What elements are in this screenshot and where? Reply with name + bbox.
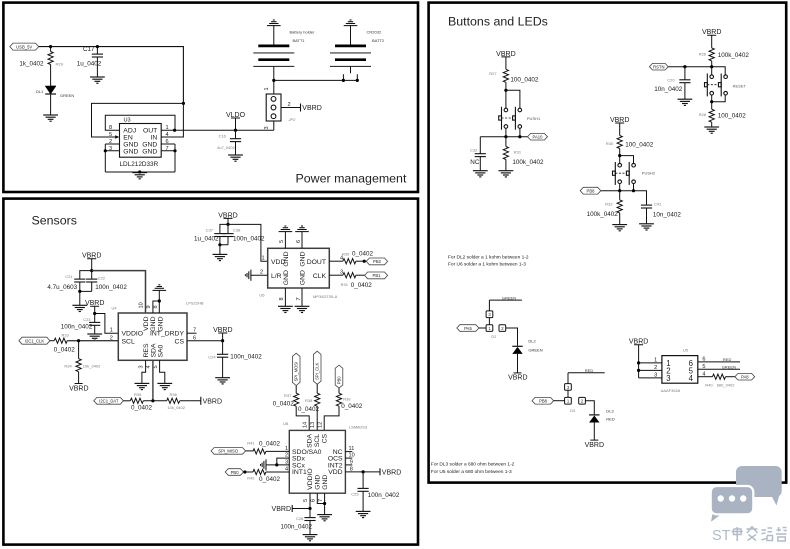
net flag I2C1_DAT	[94, 397, 124, 404]
svg-text:9: 9	[146, 305, 152, 308]
net VBRD below R34	[69, 384, 88, 393]
wire mic top gnd stubs	[285, 232, 302, 249]
ground above mic pin6	[295, 226, 309, 232]
wire IN pin from rail	[161, 103, 183, 137]
svg-text:SCL: SCL	[122, 338, 135, 345]
resistor R31 pulldown	[503, 137, 544, 171]
wire U3 GND pins left	[105, 144, 119, 172]
net VBRD at JP2	[301, 104, 322, 113]
wire U4 INT_DRDY pin7 stub	[187, 332, 197, 334]
arrowhead EN pin	[115, 135, 119, 139]
wire JP2 pin2 to VBRD	[281, 107, 301, 109]
ground below R31	[499, 171, 514, 177]
svg-text:5: 5	[109, 132, 112, 138]
watermark back chat bubble	[736, 466, 782, 506]
wire VBRD rail to U4 VDD	[92, 271, 146, 313]
svg-text:100n_0402: 100n_0402	[368, 492, 400, 499]
ground below U3	[132, 173, 147, 179]
net label RED at DL3	[568, 368, 605, 384]
wire U4 top GND pins	[153, 290, 159, 313]
svg-text:RED: RED	[606, 416, 615, 421]
svg-text:100k_0402: 100k_0402	[587, 211, 619, 218]
regulator U3 body	[120, 124, 162, 158]
wire U8 GND pins to ground	[317, 493, 324, 514]
svg-text:5: 5	[279, 240, 285, 243]
capacitor C22	[80, 271, 128, 292]
junction VBRD C23	[93, 312, 96, 315]
pushbutton RESET	[705, 74, 728, 97]
pressure sensor U4 body	[118, 313, 187, 360]
svg-text:PB8: PB8	[539, 399, 548, 404]
svg-text:DL2: DL2	[528, 339, 536, 344]
pin numbers U4	[110, 302, 196, 368]
svg-text:100k_0402: 100k_0402	[718, 52, 750, 59]
svg-text:BATT1: BATT1	[293, 38, 306, 43]
svg-text:PA10: PA10	[533, 135, 544, 140]
resistor R32 pulldown	[587, 191, 623, 225]
svg-text:10k_0402: 10k_0402	[167, 405, 185, 410]
svg-text:For DL2 solder a 1 kohm betwee: For DL2 solder a 1 kohm between 1-2	[448, 254, 529, 260]
junction below RESET	[710, 100, 713, 103]
net VBRD above U5	[629, 339, 662, 378]
junction VDD C25	[362, 470, 365, 473]
svg-text:PA8: PA8	[741, 375, 749, 380]
svg-text:C17: C17	[83, 46, 95, 53]
svg-text:Sensors: Sensors	[32, 214, 77, 228]
resistor R29	[19, 47, 63, 70]
pad 1 of DL2	[486, 325, 493, 332]
resistor R35	[130, 392, 152, 412]
junction C37 C38	[218, 243, 221, 246]
resistor R37	[273, 393, 299, 408]
wire U4 RES pin to ground	[142, 360, 146, 383]
svg-text:GREEN: GREEN	[60, 93, 74, 98]
svg-text:VDDIO: VDDIO	[307, 468, 314, 490]
resistor R30 push2	[606, 136, 654, 149]
svg-text:0_0402: 0_0402	[298, 406, 320, 413]
svg-text:R36: R36	[170, 392, 178, 397]
svg-text:5: 5	[303, 499, 309, 502]
battery BATT1	[253, 26, 315, 81]
LED DL1 GREEN	[36, 86, 74, 115]
svg-text:680_0402: 680_0402	[717, 383, 736, 388]
wire R37 to SDA pin	[296, 406, 309, 430]
svg-text:ST: ST	[712, 528, 731, 544]
svg-text:1: 1	[261, 256, 264, 262]
net VBRD above C23	[85, 300, 104, 313]
wire I2C1_CLK to R33	[50, 340, 54, 342]
pad 3 of DL3	[565, 384, 572, 398]
net VBRD below DL3	[585, 440, 604, 449]
svg-text:7: 7	[318, 499, 324, 502]
net flag I2C1_CLK	[19, 337, 50, 344]
wire PUSH1 to PA10 row	[480, 128, 527, 136]
wire U3 GND pins right	[161, 144, 175, 172]
ground below C25	[356, 511, 371, 517]
svg-text:C22: C22	[98, 275, 106, 280]
svg-text:10: 10	[138, 302, 144, 308]
net flag PA5	[457, 325, 479, 332]
net VBRD above R26	[702, 29, 721, 48]
svg-text:C25: C25	[351, 491, 359, 496]
wire R27 to PUSH1	[506, 82, 520, 108]
svg-text:4: 4	[340, 256, 343, 262]
svg-text:CR2032: CR2032	[367, 30, 382, 35]
svg-text:10k_0402: 10k_0402	[83, 364, 101, 369]
ground below C20	[678, 99, 693, 105]
svg-text:D3: D3	[570, 408, 576, 413]
resistor R42	[247, 469, 280, 482]
junction R26 RESET	[710, 65, 713, 68]
svg-text:1: 1	[264, 87, 270, 90]
svg-text:R33: R33	[62, 332, 70, 337]
svg-text:100_0402: 100_0402	[510, 77, 539, 84]
junction PUSH1 left	[504, 135, 507, 138]
net flag PB8 at DL3	[532, 397, 554, 404]
svg-text:GND: GND	[300, 270, 307, 285]
svg-text:R30: R30	[606, 141, 614, 146]
svg-text:CS: CS	[322, 433, 329, 443]
wire INT2 stub	[345, 464, 352, 466]
ground below C41	[639, 224, 654, 230]
svg-text:R29: R29	[56, 61, 64, 66]
junction SDA I2C1_DAT	[151, 399, 154, 402]
svg-text:U8: U8	[283, 421, 289, 426]
svg-text:RES: RES	[143, 343, 150, 357]
svg-text:5: 5	[153, 365, 159, 368]
wire R26 to RESET row	[668, 61, 725, 75]
net VBRD above R27	[496, 51, 515, 70]
capacitor C41	[641, 202, 682, 224]
resistor R38	[298, 393, 320, 413]
wire SPI_CLK to R38	[316, 384, 318, 393]
svg-text:U3: U3	[124, 118, 131, 124]
wire NC stub	[345, 451, 352, 453]
junction VLDO	[234, 129, 237, 132]
pad 2 of DL2	[499, 325, 506, 332]
svg-text:10n_0402: 10n_0402	[653, 212, 682, 219]
Buttons and LEDs section frame	[429, 3, 787, 483]
svg-text:0_0402: 0_0402	[259, 476, 281, 483]
svg-text:R37: R37	[284, 393, 292, 398]
junction OUT pin	[173, 129, 176, 132]
net VBRD at I2C1_DAT	[201, 397, 222, 406]
capacitor C37	[194, 224, 228, 244]
wire OUT to VLDO and JP2 pin3	[161, 121, 274, 130]
svg-text:3: 3	[264, 126, 270, 129]
svg-text:8: 8	[279, 297, 285, 300]
pad 1 of DL3	[565, 397, 572, 404]
wire RESET to R28	[712, 95, 726, 109]
svg-text:D2: D2	[491, 334, 497, 339]
svg-text:SPI_MISO: SPI_MISO	[218, 449, 239, 454]
resistor R40	[705, 374, 735, 387]
net flag SPI_MOSI vertical	[292, 353, 300, 385]
svg-text:0_0402: 0_0402	[131, 405, 153, 412]
svg-text:PB1: PB1	[373, 273, 382, 278]
pushbutton PUSH2	[613, 162, 636, 185]
svg-text:JP2: JP2	[288, 117, 297, 122]
svg-text:VBRD: VBRD	[382, 470, 401, 477]
junction SCL R34	[77, 339, 80, 342]
svg-text:RED: RED	[723, 357, 732, 362]
ground below C26	[303, 535, 318, 541]
wire R30 to PB2	[356, 260, 366, 262]
wire U4 CS pin6 to VBRD	[187, 340, 223, 342]
svg-text:3: 3	[654, 373, 657, 379]
net VBRD at VDDIO	[272, 505, 293, 513]
ground below R32	[612, 225, 627, 231]
net VBRD at CS	[213, 327, 232, 341]
wire C21 to ground	[79, 291, 81, 305]
svg-text:6: 6	[311, 499, 317, 502]
ground below mic pin8	[278, 306, 293, 312]
net flag SPI_MISO	[211, 448, 246, 455]
junction SDx SCx	[275, 463, 278, 466]
wire USB_5V rail	[39, 47, 184, 104]
svg-text:GND: GND	[315, 475, 322, 490]
pushbutton PUSH1	[499, 107, 522, 130]
svg-text:INT1: INT1	[292, 469, 307, 476]
junction U3 ground	[138, 170, 141, 173]
wire R39 to CS pin	[324, 406, 339, 430]
svg-text:3: 3	[139, 365, 145, 368]
svg-text:LDL212D33R: LDL212D33R	[120, 161, 159, 168]
ground below C23	[87, 334, 102, 340]
net VLDO	[226, 112, 246, 130]
svg-text:4: 4	[285, 466, 288, 472]
svg-text:R39: R39	[343, 396, 351, 401]
junction USB rail corner	[182, 102, 185, 105]
svg-text:GND: GND	[299, 251, 306, 266]
pin names U8	[292, 433, 343, 489]
svg-text:VDDIO: VDDIO	[122, 331, 144, 338]
wire battery rail to JP2	[274, 80, 358, 94]
capacitor C26	[281, 509, 316, 535]
capacitor C25	[351, 472, 400, 512]
svg-text:AAAF3528: AAAF3528	[661, 388, 681, 393]
svg-text:BATT2: BATT2	[372, 38, 385, 43]
pad 2 of DL3	[579, 397, 586, 404]
svg-text:1u_0402: 1u_0402	[194, 236, 219, 243]
svg-text:VBRD: VBRD	[508, 375, 527, 382]
svg-text:U5: U5	[683, 348, 689, 353]
Power management section frame	[3, 3, 418, 192]
capacitor C16	[217, 130, 241, 155]
net VBRD above R30	[610, 117, 629, 136]
wire U4 SA0 pin to ground	[160, 360, 165, 383]
junction BATT2 left	[342, 79, 345, 82]
svg-text:C23: C23	[83, 317, 91, 322]
svg-text:SA0: SA0	[158, 344, 165, 357]
svg-text:I2C1_DAT: I2C1_DAT	[99, 399, 119, 404]
wire U5 pin5 GREEN	[698, 365, 740, 370]
wire mic DOUT to R30	[329, 260, 343, 262]
wire R30 to PUSH2	[620, 149, 634, 164]
svg-text:C32: C32	[470, 148, 478, 153]
svg-text:R32: R32	[605, 202, 613, 207]
battery BATT2	[330, 26, 385, 81]
connector JP2	[266, 94, 296, 122]
resistor R33	[54, 332, 76, 353]
svg-text:I2C1_CLK: I2C1_CLK	[25, 339, 45, 344]
wire pin3 SCx to ground	[266, 464, 289, 466]
junction U3 pin7	[173, 149, 176, 152]
svg-text:0_0402: 0_0402	[341, 403, 363, 410]
wire R29 to DL1	[50, 70, 52, 86]
svg-text:PUSH1: PUSH1	[527, 116, 541, 121]
svg-text:C24: C24	[208, 354, 216, 359]
wire U5 pin1	[639, 362, 662, 364]
svg-text:GND: GND	[322, 475, 329, 490]
junction VBRD C22	[90, 269, 93, 272]
svg-text:12: 12	[318, 422, 324, 428]
svg-text:100n_0402: 100n_0402	[233, 236, 265, 243]
note DL3 U5 solder	[431, 462, 515, 475]
net flag PB8 push2	[580, 187, 601, 194]
svg-text:SDA: SDA	[307, 433, 314, 447]
svg-text:CS: CS	[175, 338, 185, 345]
junction U4 top gnd	[158, 299, 161, 302]
svg-text:1k_0402: 1k_0402	[19, 61, 44, 68]
svg-text:6: 6	[296, 240, 302, 243]
junction INT1	[243, 470, 246, 473]
pin numbers U5 inside	[666, 359, 693, 383]
net VBRD below DL2	[508, 373, 527, 382]
capacitor C20	[654, 67, 690, 100]
svg-text:VBRD: VBRD	[272, 506, 291, 513]
ground below C24	[215, 378, 230, 384]
pin numbers U6	[260, 240, 343, 301]
wire PB0 to R39	[338, 388, 340, 393]
svg-text:DL1: DL1	[36, 89, 44, 94]
svg-text:100n_0402: 100n_0402	[281, 523, 313, 530]
resistor R28	[699, 109, 747, 127]
junction C21 C22	[78, 290, 81, 293]
svg-text:GND: GND	[158, 316, 165, 331]
svg-text:SCL: SCL	[314, 434, 321, 447]
RGB LED U5 body	[662, 356, 698, 384]
wire mic CLK to R31	[329, 274, 343, 276]
svg-text:USB_5V: USB_5V	[16, 44, 32, 49]
svg-text:C41: C41	[654, 202, 662, 207]
watermark front chat bubble	[711, 486, 754, 522]
svg-text:0_0402: 0_0402	[351, 282, 373, 289]
svg-text:For U5 solder a 680 ohm betwee: For U5 solder a 680 ohm between 1-3	[431, 469, 512, 475]
svg-text:GREEN: GREEN	[722, 365, 736, 370]
svg-text:R40: R40	[705, 383, 713, 388]
wire VDDIO pin5 to VBRD and C26	[292, 493, 310, 508]
resistor R31 mic	[341, 273, 373, 289]
svg-text:4: 4	[689, 374, 694, 383]
svg-text:PB2: PB2	[373, 259, 382, 264]
wire ADJ-OUT feedback loop	[105, 115, 175, 130]
net flag USB_5V	[10, 43, 39, 50]
svg-text:C20: C20	[667, 77, 675, 82]
net flag PB12 vertical	[335, 365, 343, 388]
junction above PUSH2	[618, 154, 621, 157]
wire pin2 SDx to pin3	[277, 458, 290, 465]
resistor R36	[167, 392, 186, 410]
ground below SA0	[157, 383, 172, 389]
svg-text:2: 2	[654, 365, 657, 371]
resistor R27	[489, 69, 539, 83]
ground below R28	[704, 127, 719, 133]
svg-text:GND: GND	[123, 148, 138, 155]
svg-text:GND: GND	[142, 148, 157, 155]
svg-text:SPI_MOSI: SPI_MOSI	[294, 362, 299, 382]
svg-text:PB0: PB0	[231, 470, 240, 475]
ground above U4	[153, 285, 167, 291]
svg-text:10n_0402: 10n_0402	[654, 86, 683, 93]
svg-text:100_0402: 100_0402	[625, 142, 654, 149]
svg-text:MP34DT05-A: MP34DT05-A	[313, 294, 338, 299]
wire U5 pin6 RED	[698, 357, 740, 362]
wire VBRD to mic VDD pin1	[228, 224, 268, 261]
net flag RSTN	[649, 63, 668, 70]
svg-text:Battery holder: Battery holder	[290, 30, 316, 35]
junction U5 pin1	[637, 361, 640, 364]
svg-text:RSTN: RSTN	[653, 65, 664, 70]
svg-text:8: 8	[109, 125, 112, 131]
svg-text:0_0402: 0_0402	[259, 441, 281, 448]
svg-text:4u7_0402: 4u7_0402	[217, 145, 236, 150]
svg-text:C21: C21	[65, 274, 73, 279]
svg-text:2: 2	[288, 102, 291, 108]
ground below U8	[317, 515, 332, 521]
svg-text:U4: U4	[112, 306, 118, 311]
pin names U4	[122, 316, 185, 357]
wire R40 to PA8	[726, 376, 735, 378]
net label GREEN at DL2	[489, 295, 522, 311]
net VBRD above C37 C38	[218, 212, 237, 224]
svg-text:For U6 solder a 1 kohm between: For U6 solder a 1 kohm between 1-3	[448, 262, 526, 268]
svg-text:CLK: CLK	[313, 273, 327, 280]
junction at PB2	[363, 260, 366, 263]
svg-text:PB8: PB8	[587, 189, 596, 194]
junction VDDIO C26	[308, 507, 311, 510]
svg-text:NC: NC	[470, 159, 480, 166]
svg-text:13: 13	[310, 422, 316, 428]
capacitor C38	[220, 224, 265, 244]
wire I2C1_DAT to R35	[123, 400, 130, 402]
capacitor C24	[208, 341, 262, 378]
wire U3 ground rail	[105, 171, 175, 173]
svg-text:100_0402: 100_0402	[718, 113, 747, 120]
svg-text:PB0: PB0	[337, 376, 342, 385]
svg-text:R35: R35	[134, 392, 142, 397]
wire mic bottom gnd stubs	[285, 288, 302, 306]
svg-text:L/R: L/R	[271, 273, 282, 280]
wire R38 to SCL pin	[316, 406, 318, 430]
svg-text:GND: GND	[150, 316, 157, 331]
junction PUSH1 right	[518, 135, 521, 138]
svg-text:R38: R38	[305, 398, 313, 403]
svg-text:SPI_CLK: SPI_CLK	[315, 362, 320, 379]
capacitor C23	[61, 314, 100, 335]
ground above mic pin5	[279, 226, 293, 232]
svg-text:PUSH2: PUSH2	[642, 171, 656, 176]
capacitor C32 NC	[470, 137, 486, 171]
junction PUSH2 right	[632, 189, 635, 192]
wire VDD pin8 to VBRD	[345, 471, 380, 473]
wire PA5 to pad1	[479, 327, 486, 329]
junction U5 pin2	[637, 369, 640, 372]
junction U8 gnd pins	[323, 502, 326, 505]
svg-text:VDD: VDD	[143, 316, 150, 330]
pad 3 of DL2	[486, 311, 493, 325]
wire C37 to ground	[219, 245, 221, 255]
